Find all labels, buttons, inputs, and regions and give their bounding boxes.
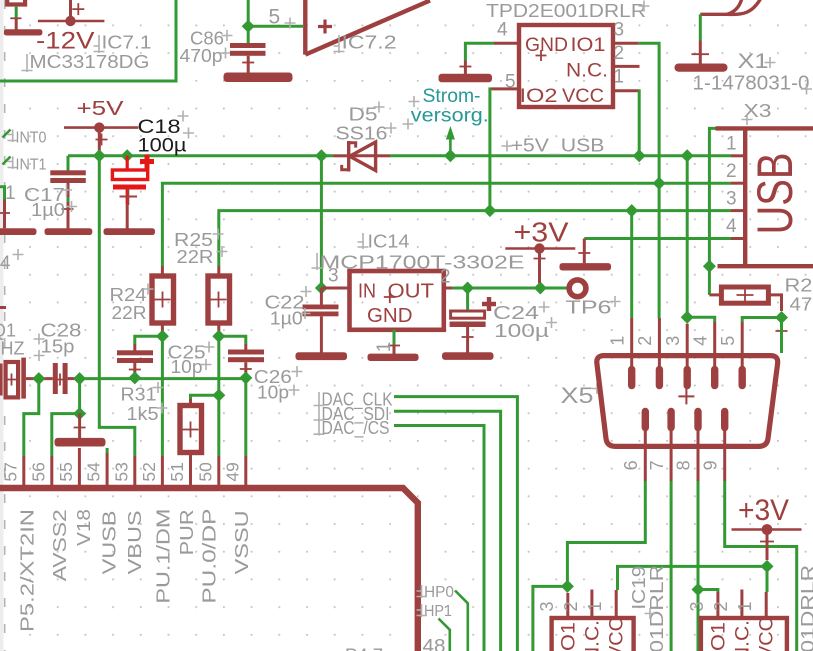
op-amp IC7.1 name origin tick [94, 35, 105, 53]
wire DAC_CLK [394, 397, 517, 651]
wire net A horizontal (left of D5) [68, 154, 334, 157]
svg-text:55: 55 [56, 462, 76, 481]
svg-text:56: 56 [29, 462, 49, 481]
svg-text:47k: 47k [790, 295, 813, 315]
svg-text:6: 6 [621, 460, 641, 470]
C24 text crosses [539, 302, 558, 329]
X5 pin3 lead [686, 324, 689, 370]
DAC_CLK tick [314, 392, 325, 407]
svg-text:D5: D5 [349, 105, 378, 125]
X5 pin6 lead down [644, 428, 647, 482]
capacitor C86 plates [230, 43, 266, 48]
svg-text:X1: X1 [738, 50, 769, 73]
svg-text:2: 2 [561, 601, 581, 611]
svg-text:IO1: IO1 [708, 622, 730, 651]
IC pin 54 tip [106, 448, 109, 453]
IC pin 50 stub [217, 456, 220, 485]
wire X5 pin3 riser [686, 156, 689, 317]
ground bar under C24 [442, 352, 494, 360]
svg-text:8: 8 [674, 460, 694, 470]
C28 text crosses [34, 334, 45, 362]
junction C28 right [73, 372, 86, 385]
USB pin2 stub [731, 182, 745, 185]
svg-text:+5V_USB: +5V_USB [511, 136, 605, 157]
wire to X5 pin4 [687, 317, 715, 322]
junction +5V on net A [93, 149, 106, 162]
wire R24 to pin 52 [161, 336, 164, 456]
C25 text crosses [201, 342, 215, 371]
C18 text crosses [178, 111, 195, 139]
capacitor C24 plate solid [450, 322, 486, 328]
capacitor C17 plates [50, 170, 86, 175]
resistor R25 body [208, 276, 230, 323]
supply +5V symbol [64, 122, 138, 150]
R31 bottom lead to pin 51 [189, 453, 192, 486]
svg-text:1µ0: 1µ0 [270, 309, 303, 329]
X5 pin4 lead [713, 322, 716, 370]
svg-text:SS16: SS16 [336, 124, 388, 144]
C18 lower lead red part [126, 190, 129, 205]
svg-text:22R: 22R [112, 303, 147, 323]
+5V_USB cross [502, 141, 513, 152]
junction X5-pin3 riser on net A [681, 149, 694, 162]
wire C26 junction to pin 49 [244, 378, 247, 456]
HP1 tick [417, 604, 428, 617]
wire +3V to net [538, 283, 542, 288]
wire USB shield to R23 [708, 266, 711, 295]
svg-text:VCC: VCC [756, 617, 778, 651]
X3 top shield pin wire [709, 128, 715, 266]
connector X1 curves [700, 0, 761, 14]
IC14 pin1 lead [393, 346, 396, 354]
svg-text:PUR: PUR [177, 509, 197, 555]
capacitor C18 (highlighted) drop wire [126, 156, 129, 170]
resistor R23 right stub [768, 295, 781, 311]
wire net A (diode left red lead) [334, 154, 349, 157]
svg-text:1: 1 [585, 601, 605, 611]
svg-text:53: 53 [111, 462, 131, 481]
ground bar at left edge [0, 228, 37, 235]
capacitor C22 lead from junction [320, 288, 323, 305]
svg-text:50: 50 [195, 462, 215, 482]
wire net C horizontal [219, 211, 731, 266]
wire net A (diode right lead) [376, 154, 390, 157]
TPD pin 4 wire to gnd [465, 43, 494, 60]
svg-text:100µ: 100µ [138, 136, 187, 157]
svg-text:15p: 15p [41, 337, 75, 357]
svg-text:2: 2 [440, 267, 451, 288]
svg-text:OUT: OUT [388, 280, 435, 302]
svg-text:5: 5 [718, 336, 738, 346]
TPD pin 5 wire down [490, 89, 492, 211]
ground GND1 origin cross [10, 17, 21, 19]
IC pin 54 stub [106, 453, 109, 485]
svg-text:10p: 10p [171, 357, 203, 377]
wire X5 pin8 down [697, 481, 700, 651]
wire +5V net down to pin 53 [99, 156, 135, 456]
DAC_SDI tick [314, 407, 325, 422]
IC14 origin cross [384, 291, 396, 303]
capacitor C26 top lead [244, 344, 247, 350]
IC7.2 origin tick [334, 35, 345, 53]
wire junction to C25 [135, 336, 163, 344]
wire [247, 0, 250, 26]
X5 origin cross [678, 388, 694, 404]
pin 1 cross [0, 212, 10, 214]
wire X5 pin9 jog right [725, 481, 797, 651]
svg-text:MCP1700T-3302E: MCP1700T-3302E [320, 253, 525, 273]
svg-text:1: 1 [735, 601, 755, 611]
R31 top lead [189, 399, 192, 406]
wire junction to IC20 pin3 [698, 590, 718, 593]
wire [15, 7, 18, 19]
X5 pin7 lead down [670, 428, 673, 482]
svg-text:3: 3 [726, 189, 737, 210]
capacitor C17 top wire [67, 156, 70, 171]
junction R25 bottom [212, 330, 225, 343]
R31 origin cross [183, 422, 199, 438]
capacitor C24 lead from junction [466, 288, 469, 311]
capacitor C28 plates [53, 363, 58, 394]
svg-text:7: 7 [647, 460, 667, 470]
svg-text:INT1: INT1 [16, 157, 47, 174]
C86 text crosses [220, 30, 233, 59]
svg-text:4: 4 [690, 336, 710, 346]
svg-text:N.C.: N.C. [732, 620, 754, 651]
svg-text:IO1: IO1 [558, 622, 580, 651]
junction C24 [461, 282, 474, 295]
ground GND1 pin lead [15, 19, 18, 30]
TPD pin 4 stub [494, 42, 519, 45]
svg-text:3: 3 [537, 601, 557, 611]
X1 value cross [801, 84, 812, 95]
svg-text:3: 3 [663, 336, 683, 346]
R23 junction cross [776, 325, 788, 337]
junction C25 bottom [128, 371, 141, 384]
wire ground net horizontal [80, 377, 246, 380]
svg-text:470p: 470p [180, 46, 223, 66]
IC19 pin2 stub [590, 590, 593, 619]
svg-text:N.C.: N.C. [582, 620, 604, 651]
IC14 name tick [358, 233, 369, 249]
wire C28 junction down [78, 379, 81, 414]
capacitor C25 top lead [133, 344, 136, 351]
ground cross [578, 252, 590, 254]
IC19 box (TPD2E001 bottom left, cut) [552, 618, 634, 651]
C18 origin cross [120, 188, 138, 205]
capacitor C24 plate polarized (outlined) [451, 311, 485, 318]
svg-text:4: 4 [0, 253, 11, 274]
microcontroller IC border [0, 488, 418, 651]
C26 text crosses [289, 366, 303, 396]
svg-text:P4.7: P4.7 [345, 646, 383, 651]
resistor R23 left stub [709, 293, 720, 296]
X3 cross [742, 114, 753, 125]
ground bar under C17 [45, 228, 93, 235]
resistor R25 top wire [217, 266, 220, 276]
C22 lower lead [320, 316, 323, 352]
TPD gnd lead [464, 61, 467, 75]
frame dashed border [4, 0, 6, 651]
junction arrow probe on net A [444, 149, 457, 162]
resistor R24 top wire [161, 266, 164, 276]
svg-text:P5.2/XT2IN: P5.2/XT2IN [18, 509, 38, 632]
svg-text:AVSS2: AVSS2 [50, 509, 70, 581]
R25 text crosses [213, 229, 228, 258]
svg-text:54: 54 [84, 462, 104, 482]
svg-text:R23: R23 [785, 276, 813, 296]
connector X3 USB box [716, 128, 813, 266]
junction X5-pin1 riser on net C [625, 204, 638, 217]
C17 net segment [67, 197, 70, 202]
value origin tick [22, 54, 33, 72]
svg-text:IN: IN [358, 280, 376, 302]
junction TPD-IO2 on net C [483, 204, 496, 217]
TP6 cross [610, 296, 621, 307]
resistor (cut off at top edge) [7, 0, 25, 5]
svg-text:-12V: -12V [36, 27, 95, 54]
DAC_/CS tick [314, 421, 325, 436]
R24 text crosses [143, 284, 154, 295]
junction C18 on net A [121, 149, 134, 162]
TPD pin 1 wire [637, 91, 641, 156]
wire junction down [780, 318, 783, 354]
IC20 pin1 stub [765, 592, 768, 618]
svg-text:IO1: IO1 [571, 34, 606, 56]
junction [242, 20, 255, 33]
ground bar under IC14 [368, 354, 419, 361]
wire DAC_/CS [394, 426, 484, 651]
svg-text:01DRLR: 01DRLR [798, 565, 813, 651]
op-amp IC7.2 triangle [305, 0, 430, 55]
svg-text:N.C.: N.C. [566, 59, 608, 81]
C86 origin cross [242, 62, 254, 64]
svg-text:GND: GND [525, 34, 568, 56]
wire net B horizontal [162, 183, 731, 266]
svg-text:22R: 22R [177, 247, 214, 267]
C24 lower lead [466, 327, 469, 353]
junction TPD-IO1 on net B [653, 177, 666, 190]
IC14 pin 2 stub [444, 287, 452, 290]
svg-text:3: 3 [614, 19, 625, 40]
svg-text:57: 57 [1, 462, 21, 481]
USB pin3 stub [731, 209, 745, 212]
X1 wire [699, 14, 702, 40]
X1 name cross [765, 57, 776, 68]
R25 origin cross [211, 292, 227, 308]
X1 bar [675, 64, 728, 72]
net label INT0 [3, 130, 47, 147]
wire net A horizontal (right of D5) [390, 154, 731, 157]
X5 pin 6 pill [642, 412, 649, 428]
wire junction to R31 top [191, 395, 219, 399]
TPD origin cross [536, 50, 547, 61]
svg-text:GND: GND [367, 305, 413, 327]
junction +3V lower [761, 560, 774, 573]
svg-text:versorg.: versorg. [411, 106, 489, 127]
supply -12V symbol [38, 0, 105, 26]
wire IC14 IN riser [320, 156, 323, 288]
svg-text:MC33178DG: MC33178DG [30, 52, 150, 72]
wire junction to pin 57 [24, 379, 39, 456]
wire C86 drop [247, 26, 250, 43]
svg-text:9: 9 [700, 460, 720, 470]
svg-text:4: 4 [497, 19, 508, 40]
svg-text:PU.1/DM: PU.1/DM [154, 509, 174, 604]
svg-text:1: 1 [5, 183, 16, 204]
svg-text:HP0: HP0 [424, 584, 454, 601]
svg-text:5: 5 [269, 6, 281, 29]
svg-text:2: 2 [711, 601, 731, 611]
capacitor C25 plates [117, 350, 153, 355]
X5 pin 8 pill [694, 412, 701, 428]
svg-text:VCC: VCC [562, 85, 604, 107]
svg-text:V18: V18 [74, 509, 94, 546]
capacitor C18 plate solid [113, 185, 146, 190]
connector X5 body (DB9 trapezoid) [597, 356, 778, 447]
voltage regulator IC14 box [350, 271, 444, 330]
svg-text:VSSU: VSSU [232, 510, 252, 574]
svg-text:1µ0: 1µ0 [31, 200, 65, 220]
wire net D horizontal [584, 237, 731, 240]
junction C26 bottom [239, 371, 252, 384]
junction gnd / pin56 [73, 407, 86, 420]
IC pin 52 stub [161, 456, 164, 485]
C86 lead [247, 56, 250, 73]
crystal Q1 origin cross [6, 374, 18, 386]
IC pin 56 stub [50, 456, 53, 485]
wire junction to C26 [219, 336, 246, 344]
IC pin 49 stub [244, 456, 247, 485]
svg-text:2: 2 [635, 336, 655, 346]
TPD gnd cross [459, 66, 471, 68]
X5 pin 9 pill [721, 412, 728, 428]
wire DAC_SDI [394, 411, 501, 651]
crystal Q1 body [6, 362, 19, 397]
TPD pin 3 stub [613, 42, 638, 45]
svg-text:DAC_/CS: DAC_/CS [322, 418, 390, 439]
IC14 pin1 cross [388, 345, 400, 347]
svg-text:VCC: VCC [606, 617, 628, 651]
USB pin4 stub [731, 237, 745, 240]
R25 bottom lead [217, 323, 220, 336]
R24 origin cross [155, 292, 171, 308]
wire X5 pin6 to IC19 pin3 [567, 481, 645, 586]
IC14 pin 3 stub [321, 287, 349, 290]
svg-text:51: 51 [167, 462, 187, 481]
IC pin 55 stub [78, 448, 81, 485]
wire +3V to IC20 VCC [766, 566, 769, 592]
C26 origin cross [240, 368, 252, 370]
X1 pin lead [699, 41, 702, 65]
X5 label cross [592, 383, 603, 394]
diode D5 schottky [342, 141, 376, 172]
teal label crosses [403, 96, 420, 130]
IC pin 57 stub [22, 456, 25, 485]
ground bar under C18 [104, 228, 156, 235]
svg-text:TP6: TP6 [566, 298, 612, 318]
TPD pin 3 wire [638, 43, 659, 183]
X5 pin 2 pill [656, 370, 663, 386]
svg-text:+5V: +5V [77, 98, 125, 120]
IC pin 51 stub [189, 456, 192, 485]
wire X5 pin2 riser [658, 183, 661, 318]
crystal Q1 right electrode [21, 358, 26, 399]
svg-text:C24: C24 [493, 303, 539, 323]
svg-text:1: 1 [608, 336, 628, 346]
R23 origin cross [737, 287, 754, 304]
ground lead net D [583, 239, 586, 264]
R24 bottom lead [161, 323, 164, 336]
junction IC20 pin3 [692, 583, 705, 596]
C22 origin crosses [300, 286, 312, 319]
svg-text:PU.0/DP: PU.0/DP [200, 509, 220, 604]
ground GND1 bar [4, 29, 43, 35]
TPD pin 1 stub [613, 89, 638, 92]
junction R24 bottom [156, 330, 169, 343]
svg-text:1: 1 [614, 66, 625, 87]
svg-text:HZ: HZ [1, 338, 25, 358]
wire junction to pin 50 [217, 395, 220, 456]
gnd cross [74, 427, 86, 429]
test point TP6 ring [569, 280, 586, 297]
svg-text:Strom-: Strom- [423, 86, 481, 107]
crystal Q1 left electrode [0, 364, 3, 396]
net label INT1 [3, 157, 47, 174]
svg-text:IO2: IO2 [520, 85, 558, 107]
C17 text crosses [61, 185, 77, 213]
supply +3V lower symbol [732, 524, 802, 560]
IC pin 53 stub [133, 456, 136, 485]
svg-text:1k5: 1k5 [127, 404, 159, 424]
gnd lead below junction [78, 414, 81, 438]
ground bar under C22 [296, 352, 348, 360]
svg-text:52: 52 [139, 462, 159, 481]
wire X5 pin7 down [670, 481, 673, 651]
svg-text:+3V: +3V [738, 494, 789, 527]
ground bar under C86 [224, 73, 293, 83]
pin 1 lead [3, 200, 6, 229]
page left margin strip [0, 0, 4, 651]
svg-text:4: 4 [726, 216, 737, 237]
wire junction left and down [533, 586, 568, 651]
C25 lower lead [133, 363, 136, 378]
svg-text:VUSB: VUSB [100, 510, 120, 574]
junction X5 pin3 branch [681, 311, 694, 324]
X5 pin1 lead [630, 318, 633, 370]
junction IC14-IN riser on net A [315, 149, 328, 162]
net wire frame corner [0, 0, 176, 81]
svg-text:1: 1 [374, 342, 395, 353]
net arrow probe Stromversorgung [449, 138, 452, 156]
svg-text:48: 48 [423, 637, 446, 651]
svg-text:1: 1 [726, 134, 737, 155]
wire +3V to IC19 VCC [618, 566, 768, 590]
IC TPD2E001DRLR box [519, 25, 613, 107]
R31 text crosses [153, 382, 168, 414]
X5 pin9 lead down [723, 428, 726, 482]
resistor R24 body [152, 276, 174, 323]
svg-text:USB: USB [747, 153, 803, 235]
C18 plus sign [140, 155, 154, 169]
junction crystal / pin57 [32, 372, 45, 385]
junction IC14 IN [315, 282, 328, 295]
wire USB pin1 stub [731, 154, 745, 157]
C17 origin cross [62, 208, 74, 210]
C28 origin cross [54, 374, 66, 386]
C25 origin cross [129, 369, 141, 371]
junction IC19 pin3 [561, 580, 574, 593]
